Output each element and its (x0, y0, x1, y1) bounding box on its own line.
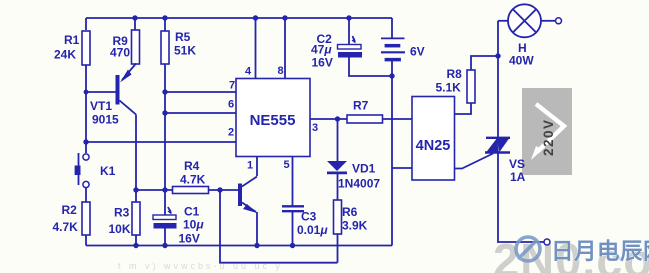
svg-text:R8: R8 (447, 67, 463, 81)
svg-text:10μ: 10μ (183, 218, 204, 232)
svg-text:0.01μ: 0.01μ (297, 223, 328, 237)
svg-text:10K: 10K (109, 222, 131, 236)
svg-text:R5: R5 (175, 30, 191, 44)
svg-text:C1: C1 (184, 205, 200, 219)
svg-text:4N25: 4N25 (416, 138, 451, 154)
svg-text:VS: VS (509, 157, 525, 171)
svg-text:R2: R2 (62, 203, 78, 217)
svg-text:16V: 16V (179, 232, 200, 246)
svg-text:51K: 51K (174, 44, 196, 58)
svg-text:220V: 220V (541, 118, 556, 156)
svg-text:5.1K: 5.1K (436, 81, 462, 95)
svg-text:6V: 6V (410, 45, 425, 59)
svg-text:4.7K: 4.7K (180, 173, 206, 187)
svg-text:470: 470 (110, 46, 130, 60)
svg-text:24K: 24K (54, 48, 76, 62)
svg-text:40W: 40W (509, 54, 534, 68)
svg-text:6: 6 (228, 99, 234, 111)
svg-text:R6: R6 (342, 205, 358, 219)
svg-text:16V: 16V (312, 56, 333, 70)
svg-text:7: 7 (229, 80, 235, 92)
svg-text:VD1: VD1 (352, 162, 376, 176)
svg-text:C3: C3 (301, 210, 317, 224)
svg-text:47μ: 47μ (311, 43, 332, 57)
svg-text:4.7K: 4.7K (53, 220, 79, 234)
svg-text:K1: K1 (100, 164, 116, 178)
svg-text:R3: R3 (114, 206, 130, 220)
svg-text:3.9K: 3.9K (342, 219, 368, 233)
svg-text:R4: R4 (184, 159, 200, 173)
svg-text:NE555: NE555 (250, 112, 296, 129)
svg-text:1N4007: 1N4007 (338, 177, 380, 191)
svg-text:9015: 9015 (92, 113, 119, 127)
svg-text:VT1: VT1 (90, 99, 112, 113)
svg-text:R1: R1 (64, 33, 80, 47)
svg-text:R7: R7 (353, 99, 369, 113)
svg-text:4: 4 (245, 66, 252, 78)
svg-text:2: 2 (228, 127, 234, 139)
svg-text:日月电辰网: 日月电辰网 (551, 239, 649, 264)
svg-text:1: 1 (247, 160, 253, 172)
svg-text:1A: 1A (510, 170, 526, 184)
svg-text:8: 8 (278, 65, 284, 77)
svg-text:5: 5 (284, 159, 290, 171)
svg-text:3: 3 (312, 122, 318, 134)
